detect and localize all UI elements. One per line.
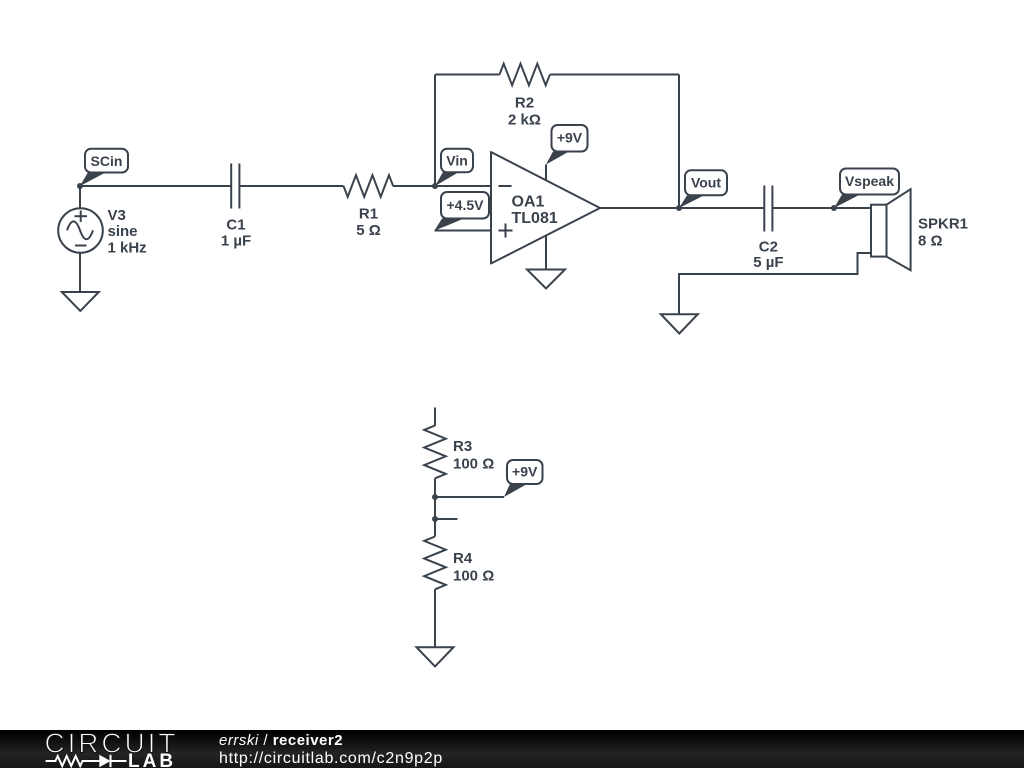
wire op-amp V+ supply pin <box>545 165 547 181</box>
wire C2 to speaker through node Vspeak <box>773 207 872 209</box>
svg-text:LAB: LAB <box>128 751 176 768</box>
ground below op-amp <box>527 270 565 289</box>
resistor R1 <box>344 175 394 239</box>
wire R4 bottom to ground <box>434 589 436 647</box>
svg-text:R3: R3 <box>453 438 472 455</box>
svg-text:2 kΩ: 2 kΩ <box>508 112 541 129</box>
ground below V3 <box>62 292 99 311</box>
svg-text:+4.5V: +4.5V <box>447 197 485 213</box>
svg-text:8 Ω: 8 Ω <box>918 233 943 250</box>
wire non-inverting input <box>435 230 492 232</box>
wire SCin node to C1 <box>80 185 231 187</box>
wire feedback top left to R2 <box>435 74 500 76</box>
wire R3 to R4 through nodes <box>434 478 436 536</box>
wire op-amp V- supply pin to ground <box>545 236 547 270</box>
wire stub right of lower node <box>435 518 458 520</box>
voltage label +9V on divider <box>504 460 543 497</box>
voltage source V3 <box>58 207 146 257</box>
svg-text:sine: sine <box>108 223 138 240</box>
node flag Vspeak <box>834 169 899 209</box>
svg-text:Vout: Vout <box>691 174 721 190</box>
op-amp OA1 <box>491 152 600 264</box>
wire R2 to feedback right corner <box>550 74 679 76</box>
CircuitLab logo resistor-diode glyph <box>46 756 127 766</box>
capacitor C1 <box>221 164 251 250</box>
resistor R4 <box>424 537 494 590</box>
node flag SCin <box>80 149 128 186</box>
wire feedback right vertical to output node <box>678 75 680 209</box>
svg-text:C2: C2 <box>759 239 778 256</box>
wire speaker return to ground <box>679 253 871 314</box>
ground below speaker return <box>661 314 698 333</box>
voltage label +4.5V on non-inverting input <box>435 192 490 231</box>
wire +9V tap from divider node <box>435 496 504 498</box>
capacitor C2 <box>753 186 783 272</box>
svg-text:V3: V3 <box>108 207 126 224</box>
svg-text:errski / receiver2: errski / receiver2 <box>219 732 343 749</box>
wire R1 to op-amp inverting input through node Vin <box>393 185 491 187</box>
node junction Vin <box>432 183 438 189</box>
node junction divider +9V tap <box>432 494 438 500</box>
svg-text:Vspeak: Vspeak <box>845 173 894 189</box>
svg-text:100 Ω: 100 Ω <box>453 456 494 473</box>
speaker SPKR1 <box>871 189 968 270</box>
wire V3 bottom lead to ground <box>79 253 81 293</box>
svg-text:OA1: OA1 <box>512 193 545 210</box>
wire feedback left vertical <box>434 75 436 187</box>
svg-text:http://circuitlab.com/c2n9p2p: http://circuitlab.com/c2n9p2p <box>219 750 443 767</box>
resistor R2 <box>500 64 550 129</box>
svg-text:1 kHz: 1 kHz <box>108 240 147 257</box>
svg-text:+9V: +9V <box>557 130 583 146</box>
wire V3 top lead <box>79 186 81 209</box>
node junction divider stub <box>432 516 438 522</box>
svg-text:+9V: +9V <box>512 464 538 480</box>
node junction Vout <box>676 205 682 211</box>
ground below R4 <box>417 647 454 666</box>
voltage label +9V on op-amp supply <box>546 125 588 165</box>
node junction SCin <box>77 183 83 189</box>
svg-text:SCin: SCin <box>91 153 123 169</box>
svg-text:1 µF: 1 µF <box>221 233 251 250</box>
wire C1 to R1 <box>240 185 344 187</box>
svg-text:100 Ω: 100 Ω <box>453 568 494 585</box>
svg-text:R2: R2 <box>515 95 534 112</box>
svg-text:R1: R1 <box>359 206 378 223</box>
svg-text:SPKR1: SPKR1 <box>918 216 968 233</box>
footer bar <box>0 730 1024 768</box>
svg-text:5 µF: 5 µF <box>753 254 783 271</box>
node flag Vin <box>435 149 473 186</box>
wire stub above R3 <box>434 408 436 427</box>
node junction Vspeak <box>831 205 837 211</box>
svg-text:C1: C1 <box>226 217 245 234</box>
svg-text:5 Ω: 5 Ω <box>356 222 381 239</box>
wire op-amp output to C2 through node Vout <box>600 207 764 209</box>
svg-text:TL081: TL081 <box>512 210 558 227</box>
resistor R3 <box>424 426 494 479</box>
svg-text:Vin: Vin <box>446 153 468 169</box>
svg-text:R4: R4 <box>453 550 473 567</box>
node flag Vout <box>679 170 727 208</box>
